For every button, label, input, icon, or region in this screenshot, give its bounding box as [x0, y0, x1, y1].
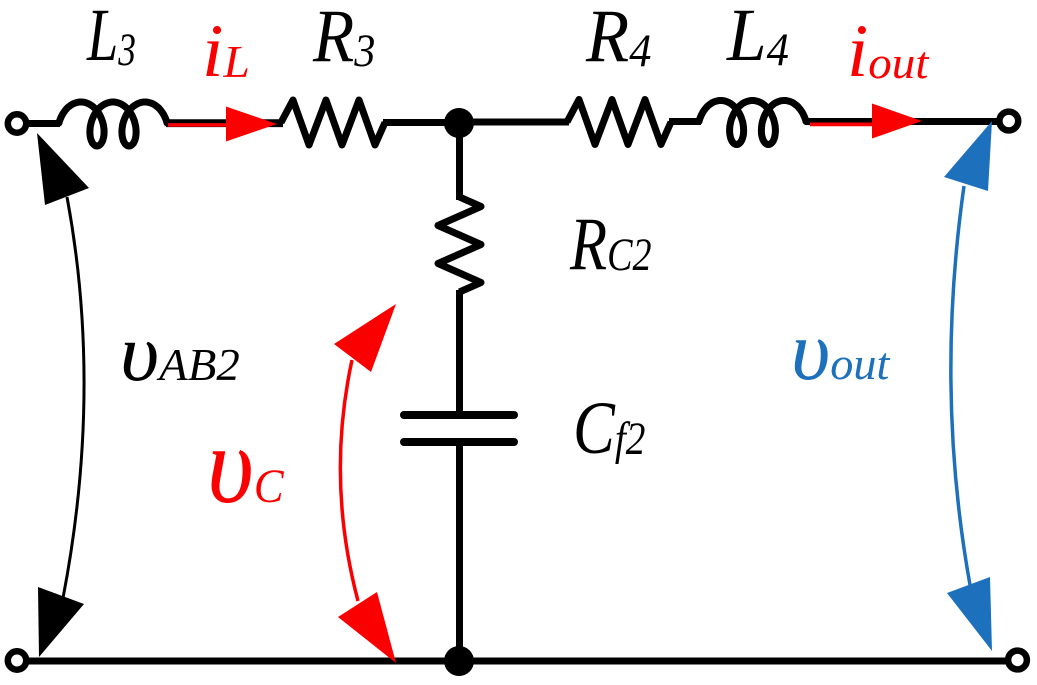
wire RC2 to Cf2: [456, 290, 463, 415]
label R3: [313, 0, 375, 74]
resistor R3: [281, 100, 385, 145]
capacitor Cf2 bottom plate: [404, 438, 514, 446]
wire node to R4: [459, 119, 569, 126]
vC arrow head top: [334, 304, 396, 372]
current arrow iout head: [872, 104, 922, 139]
vC arrow head bottom: [338, 592, 396, 663]
label vAB2: [120, 312, 240, 394]
vAB2 arrow head top: [37, 133, 89, 205]
label iout: [847, 14, 928, 89]
vAB2 arrow curve: [63, 197, 84, 598]
terminal bottom-left: [8, 651, 26, 669]
terminal bottom-right: [1008, 651, 1027, 670]
capacitor Cf2 top plate: [404, 411, 514, 419]
wire vertical node to RC2: [456, 123, 463, 200]
current arrow iL red line: [168, 123, 256, 127]
label RC2: [570, 207, 652, 282]
wire L4 to terminal: [805, 118, 997, 125]
wire top-left segment: [27, 120, 60, 127]
node B bottom junction: [444, 646, 474, 676]
vout arrow curve: [951, 186, 970, 585]
label iL: [202, 14, 250, 89]
bottom wire: [27, 658, 1006, 665]
terminal top-right: [999, 112, 1018, 131]
current arrow iout red line: [810, 123, 875, 127]
inductor L4: [699, 101, 806, 145]
resistor R4: [567, 100, 671, 145]
vout arrow head top: [944, 121, 992, 191]
wire Cf2 to bottom node: [456, 442, 463, 661]
resistor RC2: [438, 197, 481, 292]
wire L3 to R3: [166, 119, 283, 127]
label vC: [207, 410, 284, 520]
node A top junction: [444, 108, 474, 138]
label R4: [586, 0, 651, 74]
label L4: [727, 0, 789, 73]
inductor L3: [59, 102, 167, 146]
label L3: [87, 0, 136, 73]
label Cf2: [573, 391, 645, 466]
wire R3 to node: [383, 119, 459, 126]
current arrow iL head: [226, 107, 277, 142]
terminal top-left: [8, 114, 26, 132]
wire R4 to L4: [669, 118, 701, 125]
vout arrow head bottom: [947, 577, 992, 651]
label vout: [791, 309, 889, 394]
vAB2 arrow head bottom: [38, 587, 84, 657]
vC arrow curve: [340, 360, 358, 601]
